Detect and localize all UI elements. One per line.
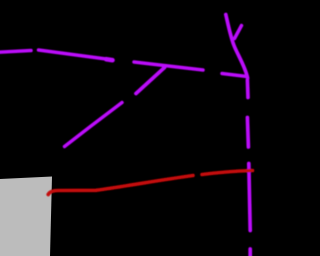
gray building footprint (bottom-left) — [0, 177, 52, 256]
purple dashed road: top-left dash 2 — [39, 50, 111, 60]
purple dashed road: middle dash — [134, 62, 203, 70]
purple dashed road: dash 2 end blob — [106, 59, 113, 60]
purple vertical dashed road: dash B — [247, 118, 248, 148]
purple vertical dashed road: dash D — [248, 249, 252, 256]
purple vertical dashed road: dash C — [249, 164, 250, 231]
purple dashed road: top-left dash 1 — [0, 51, 31, 53]
red road: east segment — [202, 171, 253, 175]
red road: west segment — [48, 176, 193, 195]
purple Y road: small fork branch — [235, 26, 242, 39]
purple Y road: main stem top-right — [226, 15, 248, 79]
purple vertical dashed road: dash A — [246, 80, 250, 98]
purple diagonal branch: lower dash — [65, 103, 123, 147]
purple dashed road: approach dash to junction — [222, 74, 247, 77]
purple diagonal branch: upper dash — [136, 68, 165, 94]
